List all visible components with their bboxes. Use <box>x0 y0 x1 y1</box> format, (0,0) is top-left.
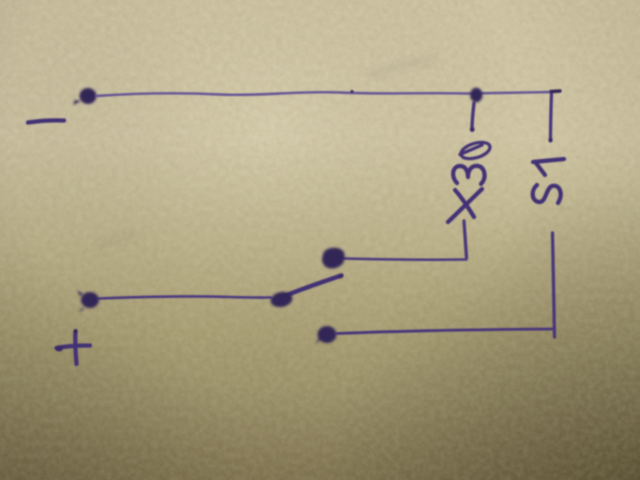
faint smudge left middle <box>100 235 134 246</box>
plus terminal label "+" <box>55 330 90 365</box>
wire: switch common to S1 bottom <box>337 329 552 334</box>
bottom wire start dot <box>315 326 337 344</box>
wire: positive feed to switch pivot <box>99 297 271 299</box>
switch S1 pivot dot <box>269 290 294 309</box>
wire: switch top contact to Y30 <box>344 259 467 260</box>
wire: negative rail (top) <box>96 92 553 96</box>
label Y30 <box>448 139 492 222</box>
wire: S1 upper lead <box>551 93 552 141</box>
switch S1 lever (open) <box>286 276 342 296</box>
rail overshoot at S1 corner <box>551 89 560 93</box>
switch S1 top contact dot <box>322 248 345 269</box>
faint pencil smudge upper right <box>370 60 432 76</box>
wire: Y30 upper lead <box>472 103 474 130</box>
wire: Y30 lower lead <box>464 221 467 258</box>
small ink tick on negative rail <box>350 90 353 93</box>
junction node on negative rail <box>470 88 482 102</box>
wire: S1 lower lead <box>553 233 555 337</box>
label S1 <box>533 159 564 203</box>
positive terminal dot <box>77 290 99 312</box>
minus terminal label "−" <box>28 120 64 122</box>
negative terminal dot <box>73 88 97 105</box>
